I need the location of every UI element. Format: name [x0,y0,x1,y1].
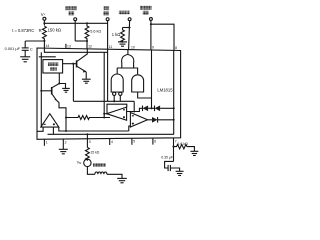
node Q1 base dot [72,63,74,65]
diode D2 (points left) [155,106,174,112]
node pin8 rail dot upper [173,107,175,109]
resistor 5.4k [85,23,89,41]
wire timing rail down to resistor node [103,52,105,117]
pin 6 stub [152,138,154,145]
ground below C [20,54,30,62]
node bus A dot [65,130,67,132]
wire junction to cap C [25,40,44,42]
svg-text:11: 11 [109,45,113,49]
node resistor 5.4k top dot [86,22,88,24]
wire OR output to pin 10 [127,49,129,54]
wire bus A lower [59,126,131,131]
wire A2 input from diode row [127,108,143,111]
wire A2 output (apex) to timing rail [104,113,106,115]
svg-text:LM1815: LM1815 [157,88,173,93]
label ref pulse line2 (2 hanzi) [68,11,74,15]
label one-shot line1 (3 hanzi) [48,63,58,67]
svg-text:2: 2 [65,140,67,144]
wire G1 output jog to OR input [116,68,118,74]
wire pin7 to cap [165,161,174,168]
svg-text:t = 0.873RC: t = 0.873RC [12,28,34,33]
wire A1 left input [37,127,43,131]
resistor 15k [86,148,90,161]
node Q2 base dot [40,90,42,92]
node Q2 collector dot [58,82,60,84]
node V+ junction dot [43,22,45,24]
ground below 1k [118,40,127,46]
resistor 1.6k [174,144,195,151]
wire pin 8 internal [173,50,175,134]
wire one-shot output to Q1 base [63,63,77,65]
wire A1 right input to pin 3 bus [48,127,175,134]
capacitor 0.33uF [168,165,170,171]
comparator A1 (up triangle) [41,114,59,127]
wire terminal bottom to resistor bottom [75,40,87,42]
svg-text:8: 8 [175,46,177,50]
svg-text:12: 12 [88,45,92,49]
wire latch bus down to A3 input [133,101,135,112]
node resistor 5.4k bottom dot [86,40,88,42]
pin 7 wire [173,138,175,162]
svg-text:1.6 kΩ: 1.6 kΩ [177,142,188,146]
wire G2 output jog to OR input [137,68,139,74]
wire Q1 base rail down [72,64,74,102]
terminal input select [106,18,109,50]
AND gate G1 [111,74,123,92]
terminal gate output [128,18,131,50]
pin 4 stub [109,139,111,146]
node pin8 rail dot lower [173,119,175,121]
diode D3 (points right) [148,117,174,123]
one-shot box [43,60,63,73]
label signal input (4 hanzi) [93,163,106,167]
wire Q1 emitter down [85,72,87,79]
wire timing to pin 8 [151,24,174,50]
wire pin 3 internal [86,134,88,138]
wire Q2 collector up to one-shot [58,73,60,84]
ground Q2 collector [62,88,70,92]
label timing pulse line1 (4 hanzi) [140,6,152,10]
bubble G1 left [113,92,116,95]
comparator A2 (points left) [107,107,127,120]
pin 13 stub [65,44,67,49]
svg-text:9: 9 [152,46,154,50]
svg-text:3: 3 [89,140,91,144]
label A1 minus [44,123,46,125]
label input select line2 [103,11,109,15]
wire VM to coil [87,167,95,175]
wire to 1k resistor [123,27,130,29]
pin 5 stub [131,138,133,145]
wire pin 11 internal [107,49,109,101]
svg-text:15 kΩ: 15 kΩ [90,150,99,154]
label A1 plus [53,123,55,125]
node latch bus dot [113,100,115,102]
svg-text:150 kΩ: 150 kΩ [48,28,61,33]
comparator A2 feedback loop [107,104,127,114]
ground pin 2 [59,149,68,154]
node resistor left dot [65,116,67,118]
label timing pulse line2 (2 hanzi) [143,11,149,15]
svg-text:C: C [30,46,33,51]
svg-text:13: 13 [67,44,71,48]
wire pin 14 internal rail [44,48,107,52]
transistor Q1 [77,49,88,73]
wire G1 left bubble down [113,96,115,102]
inductor coil [95,172,107,174]
ground after cap [176,171,184,175]
IC U1 LM1815 outline [37,48,181,139]
ground sensor [117,178,127,182]
svg-text:5.6 kΩ: 5.6 kΩ [90,29,101,33]
pin 1 stub [43,139,45,146]
V+ supply terminal [43,17,46,25]
wire V+ bus to pin 11 [44,22,107,24]
wire Q2 collector to ground branch [59,84,65,89]
node resistor right dot [103,116,105,118]
ground after 1.6k [190,151,198,155]
svg-text:6: 6 [154,140,156,144]
wire cap to ground [170,168,179,171]
transistor Q2 [41,84,59,101]
node pin9 diode junction dot [150,107,152,109]
OR gate G3 [122,54,134,68]
label A2 minus [123,109,125,111]
wire rail branch down to Q2 base [40,52,42,127]
wire Q2 emitter staircase to resistor node [57,100,67,131]
source VM [84,159,91,166]
node A2 output on timing rail [103,113,105,115]
node gate output dot [128,26,130,28]
terminal timing pulse input [149,18,152,50]
resistor R 150k [43,26,47,41]
svg-text:4: 4 [111,140,113,144]
label ref pulse line1 (4 hanzi) [65,6,77,10]
label A3 minus [132,115,134,117]
wire G1 right bubble down [119,96,121,102]
label gate output (3 hanzi) [119,11,130,15]
resistor 1k [121,28,125,43]
svg-text:R: R [39,28,42,33]
label A3 plus [132,123,134,125]
ground Q1 emitter [82,79,91,83]
wire latch bus [73,100,134,102]
pin 3 wire [86,139,88,148]
capacitor C 0.001uF [22,41,29,54]
label A2 plus [123,116,125,118]
label input select line1 [103,6,109,10]
wire down to pin 12 [86,41,88,49]
node pin 7 dot [172,146,174,148]
bubble G1 right [119,92,122,95]
AND gate G2 [132,75,144,92]
wire G2 bottom down to pin9 rail [138,92,152,98]
pin 2 wire [62,139,64,149]
svg-text:0.001 μF: 0.001 μF [5,46,21,51]
svg-text:0.35 μF: 0.35 μF [161,155,173,159]
node pin3 bus dot [86,133,88,135]
comparator A3 [130,113,147,128]
node timing branch dot [150,23,152,25]
diode D1 (points left) [143,106,155,112]
svg-text:10: 10 [131,45,135,49]
resistor internal [66,116,110,120]
wire coil to ground [107,174,122,178]
terminal reference pulse output [74,18,77,41]
svg-text:1 kΩ: 1 kΩ [112,32,121,37]
svg-text:5: 5 [133,140,135,144]
label one-shot line2 (2 hanzi) [50,67,57,71]
svg-text:1: 1 [46,141,48,145]
wire junction down to pin 14 [43,41,45,48]
wire pin 9 internal [151,50,153,108]
svg-text:14: 14 [46,44,50,48]
node R bottom junction dot [43,40,45,42]
